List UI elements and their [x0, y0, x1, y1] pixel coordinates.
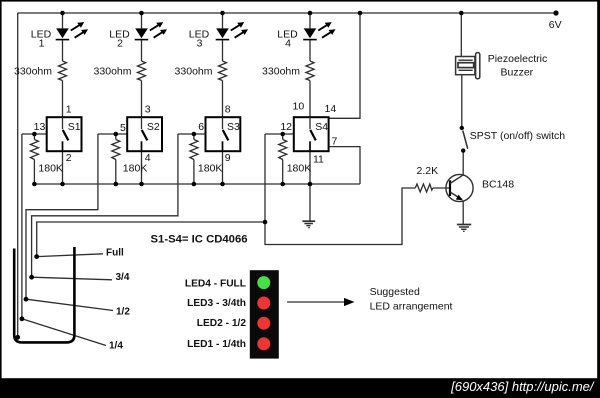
wire 2.2K to base	[433, 187, 450, 189]
wire buzzer branch	[460, 13, 462, 57]
wire S4 pin11 to bus	[309, 151, 311, 184]
svg-text:LED1 - 1/4th: LED1 - 1/4th	[187, 339, 246, 350]
piezo buzzer PZ1	[456, 53, 548, 79]
wire S2 pin4 to bus	[141, 151, 143, 184]
svg-text:4: 4	[145, 152, 151, 164]
wire S1 pin13	[22, 133, 47, 135]
node dots pins 13/5/6/12	[32, 132, 37, 137]
node 1/4 probe tip	[20, 316, 25, 321]
svg-text:1: 1	[39, 38, 45, 50]
wire R2 to S2	[141, 81, 143, 118]
node dots on ground bus	[32, 182, 37, 187]
resistor R9 2.2K	[415, 184, 433, 192]
svg-text:S2: S2	[147, 121, 160, 133]
wire 3/4 leader line	[32, 277, 112, 280]
svg-text:S3: S3	[227, 121, 240, 133]
svg-text:9: 9	[225, 152, 231, 164]
svg-text:180K: 180K	[287, 162, 312, 174]
ground under S4	[302, 221, 315, 227]
LED display panel	[250, 270, 279, 358]
wire S1 pin2 to bus	[62, 151, 64, 184]
SPST switch SW1	[460, 126, 566, 153]
watermark bar	[0, 378, 600, 398]
svg-text:Piezoelectric: Piezoelectric	[488, 53, 548, 65]
LED D2	[109, 22, 167, 49]
svg-text:[690x436] http://upic.me/: [690x436] http://upic.me/	[450, 379, 595, 394]
arrow to suggested text	[287, 301, 346, 303]
wire R1 to S1	[62, 81, 64, 118]
wire Full probe from S4 pin12	[37, 134, 265, 257]
svg-text:180K: 180K	[38, 162, 63, 174]
svg-text:7: 7	[332, 135, 338, 147]
svg-text:S1: S1	[68, 121, 81, 133]
LED lamp red 3/4	[257, 297, 270, 310]
svg-text:330ohm: 330ohm	[262, 66, 300, 78]
LED D3	[189, 22, 248, 49]
wire R4 to S4	[309, 81, 311, 118]
ground under Q1	[457, 225, 471, 232]
svg-text:Full: Full	[106, 248, 124, 259]
LED D1	[31, 22, 88, 49]
svg-text:11: 11	[313, 153, 324, 165]
node S4 control junction	[263, 220, 268, 225]
svg-text:1/2: 1/2	[116, 307, 130, 318]
wire S3 pin9 to bus	[222, 151, 224, 184]
wire LED2 branch	[141, 13, 143, 28]
svg-text:4: 4	[285, 38, 291, 50]
svg-text:Buzzer: Buzzer	[501, 67, 534, 79]
svg-text:3: 3	[197, 38, 203, 50]
svg-text:330ohm: 330ohm	[175, 66, 213, 78]
svg-text:6V: 6V	[549, 19, 562, 31]
wire 1/2 leader line	[26, 299, 113, 310]
node 3/4 probe tip	[29, 275, 34, 280]
svg-text:LED arrangement: LED arrangement	[370, 301, 453, 313]
wire ground bus	[34, 183, 360, 185]
svg-text:330ohm: 330ohm	[14, 66, 52, 78]
wire 6V top rail	[18, 12, 556, 14]
wire 1/4 probe from S1 pin13	[21, 134, 23, 319]
wire S4 pin7 to bus	[328, 147, 360, 184]
svg-text:LED4 - FULL: LED4 - FULL	[185, 279, 246, 290]
svg-text:180K: 180K	[123, 162, 148, 174]
svg-text:13: 13	[34, 121, 46, 133]
wire emitter to ground	[462, 201, 464, 224]
wire S3 pin6	[178, 133, 206, 135]
svg-text:SPST (on/off) switch: SPST (on/off) switch	[470, 130, 565, 142]
LED D4	[277, 22, 335, 49]
svg-text:2: 2	[66, 152, 72, 164]
resistor R4 330ohm	[306, 61, 314, 81]
resistor R6 180K	[112, 140, 120, 160]
svg-text:2.2K: 2.2K	[417, 165, 439, 177]
wire S4 pin12	[265, 133, 294, 135]
svg-text:LED2 - 1/2: LED2 - 1/2	[197, 318, 247, 329]
resistor R7 180K	[190, 140, 198, 160]
wire SPST to collector	[462, 151, 464, 175]
svg-text:Suggested: Suggested	[370, 286, 420, 298]
wire 3/4 probe from S3 pin6	[32, 134, 178, 277]
svg-text:BC148: BC148	[482, 179, 514, 191]
svg-text:S4: S4	[315, 121, 328, 133]
wire common probe left drop	[17, 13, 19, 337]
svg-text:12: 12	[280, 121, 292, 133]
wire R3 to S3	[222, 81, 224, 118]
tank outline	[14, 247, 74, 342]
wire LED1 branch	[62, 13, 64, 28]
svg-text:6: 6	[198, 121, 204, 133]
wire R8 leads	[282, 134, 284, 140]
wire R6 leads	[115, 134, 117, 140]
wire LED4 to R4	[309, 40, 311, 61]
svg-text:S1-S4= IC CD4066: S1-S4= IC CD4066	[151, 233, 248, 245]
wire LED2 to R2	[141, 40, 143, 61]
transistor Q1 BC148	[446, 174, 514, 201]
wire LED3 branch	[222, 13, 224, 28]
wire S4 ground stem	[309, 184, 311, 221]
wire 1/2 probe from S2 pin5	[26, 134, 98, 299]
node Full probe tip	[34, 254, 39, 259]
frame borders	[0, 0, 600, 2]
switch S3 CD4066	[198, 104, 240, 164]
svg-text:10: 10	[293, 101, 305, 113]
svg-text:330ohm: 330ohm	[94, 66, 132, 78]
node dots on 6V rail	[15, 10, 558, 339]
svg-text:180K: 180K	[198, 162, 223, 174]
wire buzzer to SPST	[461, 75, 463, 128]
wire 1/4 leader line	[22, 319, 106, 346]
switch S2 CD4066	[120, 104, 162, 164]
wire Full leader line	[37, 254, 103, 257]
resistor R8 180K	[279, 140, 287, 160]
svg-text:3: 3	[145, 104, 151, 116]
resistor R1 330ohm	[59, 61, 67, 81]
node common probe tip	[15, 335, 20, 340]
resistor R5 180K	[30, 140, 38, 160]
wire R7 leads	[193, 134, 195, 140]
LED lamp red 1/4	[257, 337, 270, 350]
svg-text:LED3 - 3/4th: LED3 - 3/4th	[187, 298, 246, 309]
wire LED3 to R3	[222, 40, 224, 61]
wire S2 pin5	[98, 133, 127, 135]
wire LED1 to R1	[62, 40, 64, 61]
svg-text:2: 2	[117, 38, 123, 50]
wire node to 2.2K resistor	[265, 188, 415, 245]
svg-text:3/4: 3/4	[116, 272, 130, 283]
svg-text:5: 5	[120, 122, 126, 134]
svg-text:1: 1	[66, 104, 72, 116]
wire LED4 branch	[309, 13, 311, 28]
switch S1 CD4066	[34, 104, 82, 164]
LED lamp green FULL	[257, 276, 270, 289]
resistor R2 330ohm	[138, 61, 146, 81]
node 1/2 probe tip	[24, 297, 29, 302]
svg-text:1/4: 1/4	[109, 341, 123, 352]
wire R5 to bus	[33, 134, 35, 140]
LED lamp red 1/2	[257, 317, 270, 330]
switch S4 CD4066	[280, 101, 337, 166]
resistor R3 330ohm	[219, 61, 227, 81]
svg-text:8: 8	[225, 104, 231, 116]
wire S4 pin14 to 6V	[328, 13, 360, 118]
svg-text:14: 14	[325, 103, 337, 115]
